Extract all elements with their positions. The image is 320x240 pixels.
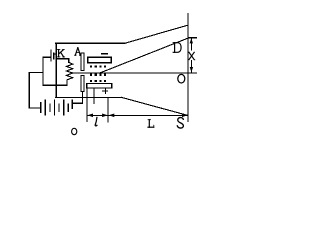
L dimension line bbox=[109, 114, 187, 116]
battery bank cell 4 short plate bbox=[67, 104, 69, 111]
battery bank cell 3 long plate bbox=[63, 100, 65, 115]
l dimension right arrowhead bbox=[102, 114, 108, 118]
l dimension left tick bbox=[86, 88, 88, 122]
field dots row 3 bbox=[90, 80, 106, 82]
battery bank cell 2 short plate bbox=[49, 104, 51, 111]
x dimension top tick at D bbox=[188, 37, 196, 39]
wire left drop bbox=[42, 57, 44, 85]
resistor R zigzag bbox=[66, 62, 72, 80]
wire to battery bank bbox=[29, 107, 40, 109]
battery bank cell 1 short plate bbox=[40, 103, 42, 113]
heater battery short plate bbox=[53, 53, 55, 59]
wire resistor bottom loop bbox=[43, 84, 67, 86]
wire far-left drop bbox=[28, 73, 30, 108]
resistor bottom lead bbox=[66, 80, 68, 85]
label D point bbox=[173, 43, 181, 53]
L dimension right arrowhead bbox=[182, 114, 188, 118]
battery bank cell 3 short plate bbox=[58, 104, 60, 111]
label K cathode bbox=[57, 50, 64, 57]
anode A upper plate bbox=[81, 53, 84, 71]
screen S plate bbox=[187, 13, 189, 121]
label l plate length bbox=[95, 117, 97, 125]
wire battery bank right lead bbox=[72, 102, 82, 104]
heater battery long plate bbox=[50, 50, 52, 61]
deflected beam diagonal to D bbox=[101, 38, 188, 72]
anode A lower plate bbox=[81, 76, 84, 92]
field dots row 1 bbox=[90, 66, 106, 68]
tube top flare diagonal bbox=[125, 25, 188, 43]
l dimension line bbox=[88, 114, 108, 116]
label L distance bbox=[148, 120, 154, 128]
label A anode bbox=[75, 48, 82, 56]
tube top edge bbox=[56, 42, 126, 44]
field dots row 2 bbox=[90, 74, 106, 76]
anode stem bbox=[82, 91, 84, 97]
tube bottom wire bbox=[56, 96, 122, 98]
l dimension left arrowhead bbox=[87, 114, 93, 118]
wire junction horizontal bbox=[29, 72, 43, 74]
x dimension upper arrow bbox=[190, 39, 192, 50]
battery bank cell 1 long plate bbox=[44, 100, 46, 115]
bottom deflection plate bbox=[87, 83, 112, 88]
label S screen point bbox=[177, 118, 183, 129]
tube left edge bbox=[55, 43, 57, 97]
wire riser to anode stem bbox=[82, 97, 84, 103]
wire battery left lead bbox=[43, 56, 51, 58]
label O screen centre bbox=[178, 74, 185, 83]
l dimension right tick bbox=[107, 97, 109, 122]
beam axis line to O bbox=[73, 72, 197, 74]
battery bank cell 2 long plate bbox=[54, 100, 56, 115]
label x deflection bbox=[188, 52, 195, 60]
bottom plate stem bbox=[93, 88, 95, 103]
tube bottom flare diagonal to S bbox=[121, 97, 188, 115]
label O battery bbox=[72, 128, 77, 134]
minus label of plates bbox=[101, 53, 108, 55]
wire K to resistor top bbox=[56, 58, 68, 60]
wire battery to K bbox=[55, 53, 57, 55]
x dimension lower arrow bbox=[190, 61, 192, 72]
top deflection plate bbox=[88, 57, 112, 62]
L dimension left arrowhead bbox=[109, 114, 115, 118]
resistor lead down bbox=[68, 59, 70, 63]
plus label of plates bbox=[102, 88, 108, 94]
battery bank cell 4 long plate bbox=[71, 100, 73, 108]
